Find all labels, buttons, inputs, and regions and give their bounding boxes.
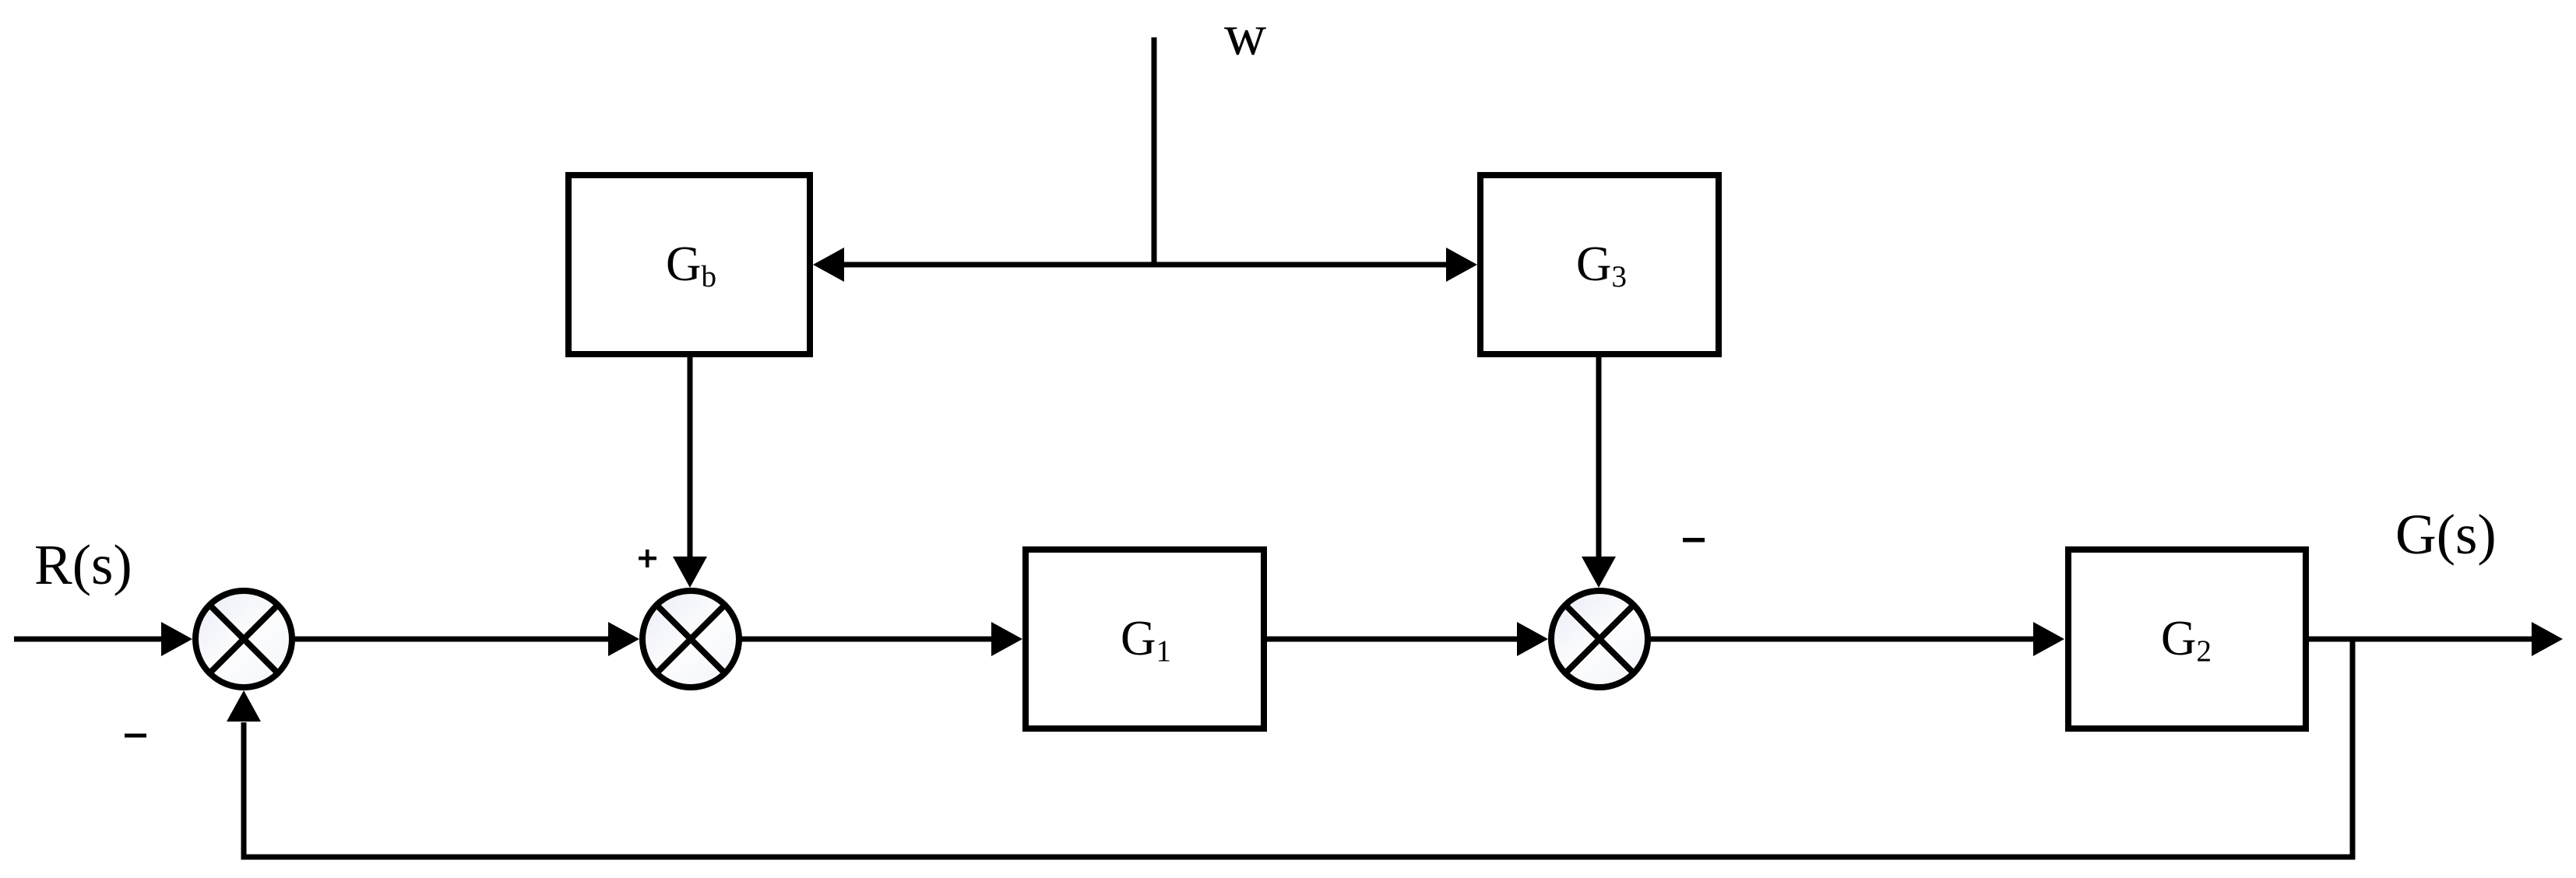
sum junction S1 — [195, 591, 292, 687]
wire G1 to S3 — [1264, 637, 1519, 642]
block Gb box — [568, 175, 810, 354]
arrowhead into S3 (points down) — [1582, 557, 1616, 588]
wire input R(s) — [14, 637, 163, 642]
arrowhead into S2 (points right) — [608, 622, 639, 656]
block G3 box — [1480, 175, 1719, 354]
block G1 box — [1026, 550, 1264, 729]
wire Gb to sum junction S2 — [688, 354, 693, 557]
wire G3 to sum junction S3 — [1596, 354, 1602, 557]
block G2 box — [2068, 550, 2306, 729]
arrowhead into G2 (points right) — [2033, 622, 2064, 656]
arrowhead into S1 bottom (points up) — [227, 690, 261, 722]
arrowhead output (points right) — [2532, 622, 2563, 656]
wire S2 to G1 — [739, 637, 993, 642]
svg-text:w: w — [1224, 3, 1266, 68]
wire S3 to G2 — [1648, 637, 2035, 642]
arrowhead into Gb (points left) — [813, 248, 844, 282]
wire feedback from output junction to S1 — [244, 639, 2353, 857]
sum junction S3 — [1551, 591, 1648, 687]
wire w distribution horizontal — [841, 262, 1449, 268]
svg-text:R(s): R(s) — [34, 533, 132, 596]
svg-text:G(s): G(s) — [2395, 503, 2497, 566]
minus sign at S3 — [1683, 538, 1705, 543]
minus sign at S1 — [125, 734, 146, 738]
wire S1 to S2 — [292, 637, 610, 642]
arrowhead into S2 (points down) — [673, 557, 707, 588]
arrowhead into G3 (points right) — [1446, 248, 1477, 282]
wire G2 to output — [2306, 637, 2533, 642]
arrowhead into G1 (points right) — [991, 622, 1022, 656]
arrowhead into S1 (points right) — [161, 622, 192, 656]
sum junction S2 — [642, 591, 739, 687]
wire w stem vertical — [1152, 37, 1157, 265]
arrowhead into S3 (points right) — [1517, 622, 1548, 656]
plus sign at S2 — [639, 557, 656, 560]
